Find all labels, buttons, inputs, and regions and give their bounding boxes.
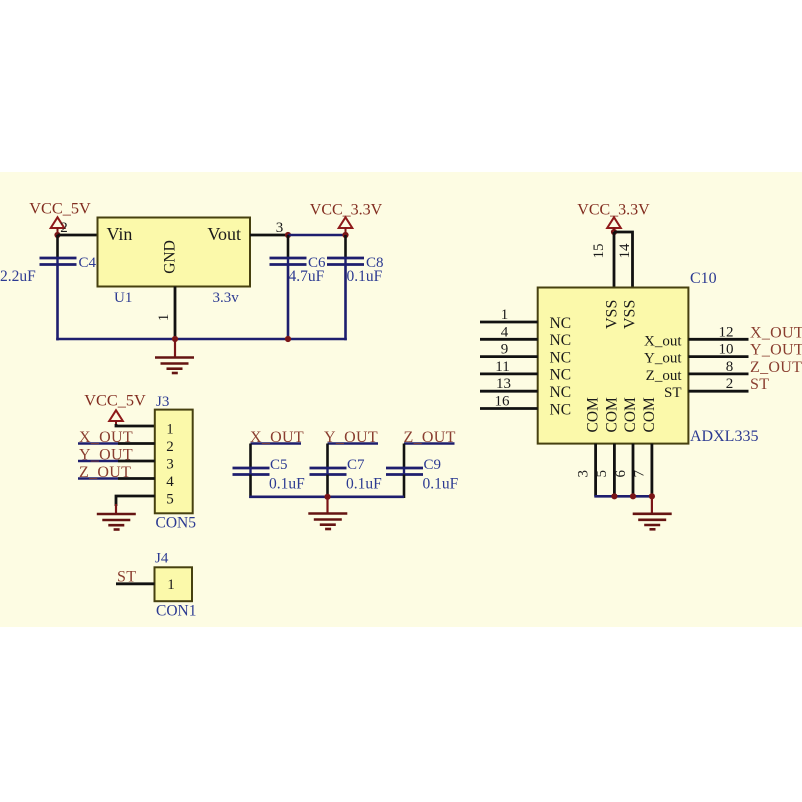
svg-text:X_OUT: X_OUT <box>250 429 304 446</box>
svg-text:Z_OUT: Z_OUT <box>404 429 456 446</box>
svg-text:ST: ST <box>117 569 136 586</box>
wire decoupling caps ground rail <box>249 495 404 498</box>
U1 pin 2 <box>58 220 98 236</box>
power port VCC_5V (U1 input) <box>29 199 91 236</box>
capacitor C5 <box>233 444 306 499</box>
wire pin3 to VCC_3.3V <box>288 234 346 237</box>
svg-text:10: 10 <box>719 342 734 358</box>
ADXL335 pin 5 <box>594 444 614 497</box>
svg-text:Vin: Vin <box>107 224 133 244</box>
svg-text:Y_OUT: Y_OUT <box>324 429 378 446</box>
svg-text:4.7uF: 4.7uF <box>289 268 325 285</box>
svg-text:C7: C7 <box>347 457 365 473</box>
ADXL335 pin 8 + net label Z_OUT <box>688 359 802 376</box>
ADXL335 pin 9 <box>480 342 538 358</box>
net label Y_OUT (J3 pin3) + wire <box>78 447 155 464</box>
wire C4 to ground rail <box>56 265 59 341</box>
svg-text:NC: NC <box>550 349 572 366</box>
net label ST (J4 pin1) + wire <box>116 569 155 586</box>
svg-text:11: 11 <box>495 359 509 375</box>
svg-text:4: 4 <box>501 324 509 340</box>
ADXL335 pin 1 <box>480 307 538 323</box>
voltage regulator U1 <box>98 218 251 307</box>
ground symbol (U1 circuit) <box>155 339 194 373</box>
ADXL335 pin 7 <box>632 444 652 497</box>
accelerometer IC C10 ADXL335 <box>538 270 759 445</box>
ADXL335 pin 4 <box>480 324 538 340</box>
schematic sheet <box>0 172 802 627</box>
ground symbol (J3) <box>97 504 136 530</box>
ADXL335 pin 13 <box>480 376 538 392</box>
junction dot pin3 node <box>285 232 291 238</box>
ADXL335 pin 11 <box>480 359 538 375</box>
svg-text:1: 1 <box>166 421 173 437</box>
U1 pin 3 <box>250 220 288 236</box>
svg-text:C10: C10 <box>690 270 717 287</box>
svg-text:NC: NC <box>550 367 572 384</box>
svg-text:VCC_3.3V: VCC_3.3V <box>310 202 383 219</box>
junction dot COM pin7 <box>649 493 655 499</box>
svg-text:CON5: CON5 <box>156 515 197 532</box>
svg-text:COM: COM <box>603 397 620 433</box>
svg-text:2: 2 <box>726 376 734 392</box>
junction dot ground rail / U1 pin1 <box>172 336 178 342</box>
svg-text:6: 6 <box>613 469 629 477</box>
svg-text:VSS: VSS <box>604 300 621 329</box>
svg-text:3.3v: 3.3v <box>213 290 240 306</box>
wire / J3 pin 1 <box>116 424 155 426</box>
svg-text:9: 9 <box>501 342 509 358</box>
svg-text:15: 15 <box>591 244 607 259</box>
ADXL335 pin 6 <box>613 444 633 497</box>
net label Y_OUT (C7) + wire stub <box>324 429 378 446</box>
svg-text:2: 2 <box>166 439 174 455</box>
svg-text:12: 12 <box>719 324 734 340</box>
capacitor C8 <box>327 235 384 285</box>
svg-text:2.2uF: 2.2uF <box>0 268 36 285</box>
svg-text:3: 3 <box>166 456 174 472</box>
junction dot COM pin6 <box>630 493 636 499</box>
ADXL335 pin 12 + net label X_OUT <box>688 324 802 341</box>
svg-text:VCC_5V: VCC_5V <box>29 199 91 218</box>
ADXL335 pin 16 <box>480 394 538 410</box>
svg-text:13: 13 <box>496 376 511 392</box>
svg-text:0.1uF: 0.1uF <box>423 476 459 493</box>
ADXL335 pin 15 <box>591 232 614 288</box>
ADXL335 pin 2 + net label ST <box>688 376 769 393</box>
svg-text:8: 8 <box>726 359 734 375</box>
svg-text:14: 14 <box>617 243 633 259</box>
svg-text:Z_out: Z_out <box>646 368 683 384</box>
net label X_OUT (C5) + wire stub <box>250 429 304 446</box>
svg-text:3: 3 <box>575 470 591 478</box>
svg-text:U1: U1 <box>114 290 132 306</box>
svg-text:X_OUT: X_OUT <box>79 429 133 446</box>
svg-text:NC: NC <box>550 401 572 418</box>
svg-text:CON1: CON1 <box>156 602 196 619</box>
svg-text:VSS: VSS <box>622 300 639 329</box>
svg-text:4: 4 <box>166 474 174 490</box>
svg-text:Vout: Vout <box>207 224 241 244</box>
svg-text:1: 1 <box>167 577 175 593</box>
svg-text:ST: ST <box>750 376 769 393</box>
svg-text:3: 3 <box>276 220 284 236</box>
ADXL335 pin 10 + net label Y_OUT <box>688 342 802 359</box>
svg-text:ADXL335: ADXL335 <box>690 428 758 445</box>
ADXL335 pin 3 <box>575 444 595 497</box>
svg-text:1: 1 <box>501 307 509 323</box>
svg-text:COM: COM <box>641 397 658 433</box>
connector J4 <box>155 551 197 620</box>
ground rail wire <box>56 338 347 341</box>
svg-text:COM: COM <box>585 397 602 433</box>
svg-text:5: 5 <box>594 470 610 478</box>
power port VCC_5V (J3) <box>84 391 146 425</box>
svg-text:GND: GND <box>162 240 179 274</box>
connector J3 <box>155 394 196 532</box>
svg-text:16: 16 <box>495 394 511 410</box>
svg-text:Y_OUT: Y_OUT <box>750 342 802 359</box>
ADXL335 pin 14 + wire <box>614 232 633 288</box>
svg-text:5: 5 <box>166 491 174 507</box>
capacitor C6 <box>270 235 327 285</box>
wire J3 pin 5 to ground <box>116 496 155 506</box>
svg-text:X_OUT: X_OUT <box>750 324 802 341</box>
svg-text:Z_OUT: Z_OUT <box>79 464 131 481</box>
power port VCC_3.3V (ADXL335) <box>577 202 650 233</box>
svg-text:0.1uF: 0.1uF <box>347 268 383 285</box>
svg-text:C4: C4 <box>79 255 97 271</box>
junction dot VCC_3.3V node <box>342 232 348 238</box>
svg-text:NC: NC <box>550 315 572 332</box>
net label X_OUT (J3 pin2) + wire <box>78 429 155 446</box>
svg-text:1: 1 <box>156 314 172 322</box>
capacitor C4 <box>0 235 97 285</box>
U1 pin 1 <box>156 287 175 340</box>
svg-text:Z_OUT: Z_OUT <box>750 359 802 376</box>
svg-text:VCC_5V: VCC_5V <box>84 391 146 410</box>
capacitor C9 <box>386 444 459 499</box>
ground symbol (ADXL335 COM) <box>633 496 672 529</box>
svg-text:Y_OUT: Y_OUT <box>79 447 133 464</box>
svg-text:C5: C5 <box>270 457 288 473</box>
wire COM ground rail <box>594 495 652 498</box>
svg-text:J4: J4 <box>155 551 169 567</box>
junction dot at VCC_5V node <box>54 232 60 238</box>
svg-text:7: 7 <box>632 469 648 477</box>
svg-text:Y_out: Y_out <box>644 351 682 367</box>
junction dot COM pin5 <box>611 493 617 499</box>
svg-text:C9: C9 <box>424 457 442 473</box>
net label Z_OUT (C9) + wire stub <box>404 429 456 446</box>
ground symbol (decoupling caps) <box>308 497 347 529</box>
junction dot VCC node (ADXL) <box>611 229 617 235</box>
power port VCC_3.3V (regulator output) <box>310 202 383 236</box>
svg-text:2: 2 <box>60 220 68 236</box>
junction dot C7/ground <box>324 494 330 500</box>
svg-text:COM: COM <box>622 397 639 433</box>
junction dot ground rail / C6 <box>285 336 291 342</box>
svg-text:X_out: X_out <box>644 333 682 349</box>
wire C6 to ground rail <box>287 265 290 340</box>
svg-text:NC: NC <box>550 332 572 349</box>
svg-text:J3: J3 <box>156 394 169 410</box>
svg-text:NC: NC <box>550 384 572 401</box>
net label Z_OUT (J3 pin4) + wire <box>78 464 155 481</box>
svg-text:ST: ST <box>664 385 682 401</box>
capacitor C7 <box>310 444 383 499</box>
svg-text:0.1uF: 0.1uF <box>346 476 382 493</box>
wire C8 to ground rail <box>344 265 347 341</box>
svg-text:0.1uF: 0.1uF <box>269 476 305 493</box>
